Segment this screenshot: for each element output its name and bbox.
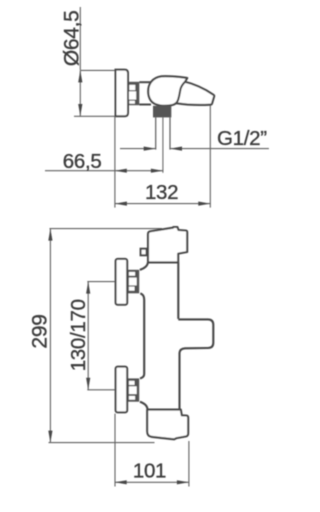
arrowhead down	[78, 104, 82, 116]
dimension 66,5 line	[45, 170, 163, 172]
G1/2 leader left	[120, 148, 156, 150]
svg-text:299: 299	[29, 314, 52, 348]
neck curve above bottom handle	[140, 402, 148, 410]
arrowhead up	[78, 70, 82, 82]
front view: 299 extension top	[50, 228, 163, 230]
101 extension left	[114, 414, 116, 487]
connection block	[153, 106, 171, 118]
svg-text:Ø64,5: Ø64,5	[61, 10, 84, 66]
bottom handle	[147, 410, 188, 440]
lever grip wedge	[176, 81, 214, 105]
299 extension bottom	[49, 442, 155, 444]
dimension 130/170 line	[87, 282, 89, 390]
body bottom edge	[74, 115, 116, 117]
dimension Ø64,5 vertical line	[79, 70, 81, 116]
130/170 extension top	[87, 281, 115, 283]
top nut front view	[128, 270, 140, 294]
pipe right line	[169, 117, 171, 149]
sleeve edges	[139, 81, 153, 83]
pipe left line	[155, 117, 157, 149]
body top edge	[80, 69, 115, 71]
top handle	[148, 227, 187, 262]
bottom nut front view	[128, 378, 140, 401]
svg-text:101: 101	[133, 459, 166, 482]
spout protrusion	[178, 319, 213, 409]
end cap	[116, 70, 129, 117]
pipe center line	[162, 117, 164, 172]
neck curve below top handle	[140, 262, 148, 270]
nut side view	[128, 82, 139, 105]
body left edge middle	[140, 293, 144, 378]
bottom wall plate	[116, 367, 128, 413]
G1/2 leader right	[170, 148, 269, 150]
top handle tab	[141, 249, 147, 256]
extension line right of 132	[209, 106, 211, 208]
side view: extension line above body	[79, 7, 81, 70]
svg-text:G1/2”: G1/2”	[217, 127, 267, 150]
svg-text:132: 132	[145, 181, 178, 204]
101 extension right	[188, 441, 190, 487]
dimension 299 line	[49, 229, 51, 443]
body right edge upper	[177, 262, 179, 319]
dimension 132 line	[115, 203, 210, 205]
extension line left of 132	[114, 116, 116, 207]
130/170 extension bottom	[87, 389, 115, 391]
top wall plate	[116, 259, 128, 305]
lever head over valve body	[148, 76, 187, 106]
svg-text:66,5: 66,5	[63, 150, 102, 173]
dimension 101 line	[115, 481, 189, 483]
svg-text:130/170: 130/170	[67, 299, 90, 371]
